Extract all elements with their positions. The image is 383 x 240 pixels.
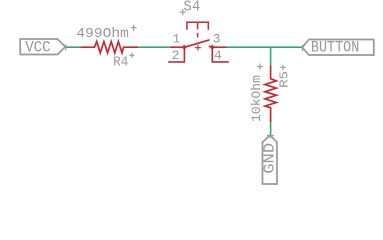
svg-text:1: 1 bbox=[172, 32, 180, 47]
svg-text:GND: GND bbox=[263, 143, 279, 174]
svg-text:S4: S4 bbox=[183, 0, 200, 16]
svg-text:BUTTON: BUTTON bbox=[311, 39, 359, 57]
svg-text:2: 2 bbox=[172, 48, 180, 63]
svg-text:3: 3 bbox=[213, 32, 221, 47]
svg-text:VCC: VCC bbox=[25, 38, 51, 56]
svg-text:R5: R5 bbox=[277, 71, 291, 88]
svg-text:R4: R4 bbox=[113, 54, 128, 70]
svg-text:499Ohm: 499Ohm bbox=[76, 27, 129, 42]
svg-text:4: 4 bbox=[214, 48, 222, 63]
svg-text:10kOhm: 10kOhm bbox=[249, 75, 264, 122]
